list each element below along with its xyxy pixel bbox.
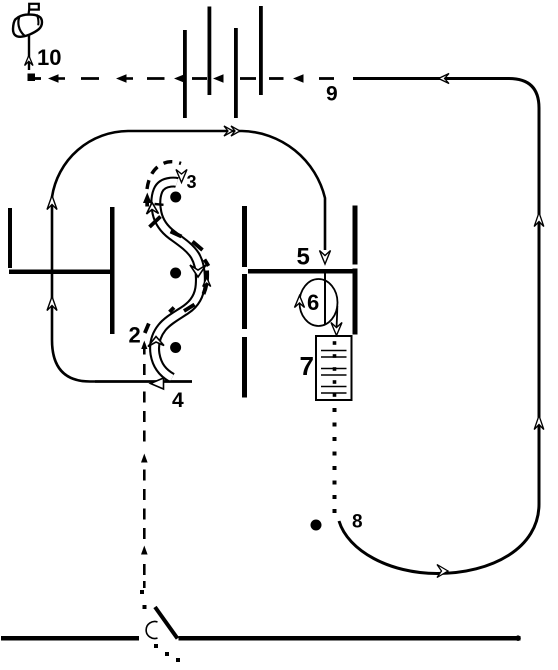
svg-text:10: 10 [37,45,61,70]
svg-text:7: 7 [300,351,314,381]
svg-text:2: 2 [129,323,141,348]
svg-text:3: 3 [187,172,197,192]
svg-text:6: 6 [307,290,319,315]
svg-text:5: 5 [297,243,310,270]
svg-text:9: 9 [326,83,338,106]
svg-text:4: 4 [172,389,184,412]
svg-text:8: 8 [352,512,363,533]
